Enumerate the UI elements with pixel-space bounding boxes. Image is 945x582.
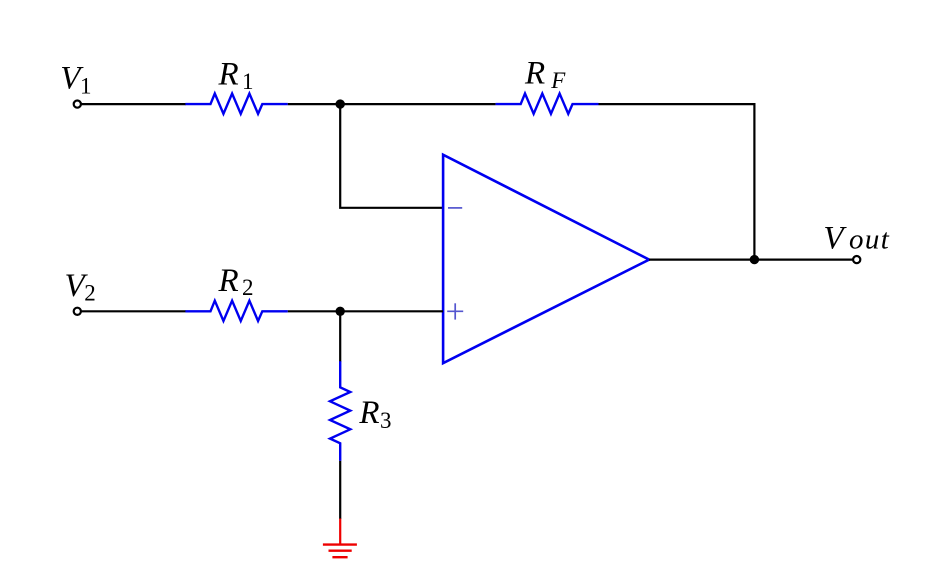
- wire op-amp output to Vout terminal: [649, 259, 853, 261]
- svg-text:2: 2: [84, 280, 96, 305]
- ground: [323, 519, 357, 558]
- label V1: [60, 61, 91, 99]
- label RF: [524, 55, 566, 93]
- label R2: [218, 263, 254, 300]
- svg-text:R: R: [358, 395, 379, 431]
- label R3: [358, 395, 391, 433]
- wire V2 terminal to R2: [81, 310, 186, 312]
- wire RF to feedback corner: [599, 103, 756, 105]
- node A junction dot: [336, 99, 345, 108]
- node B junction dot: [336, 307, 345, 316]
- terminal V1: [74, 101, 81, 108]
- svg-text:1: 1: [242, 69, 254, 94]
- label V2: [65, 268, 96, 305]
- svg-text:F: F: [550, 68, 566, 93]
- wire V1 terminal to R1: [81, 103, 186, 105]
- wire node B down to R3: [339, 311, 341, 362]
- wire node A down to inverting input: [340, 103, 443, 208]
- wire R2 to non-inverting input (through node B): [288, 310, 443, 312]
- op-amp plus pin symbol: [447, 303, 463, 319]
- svg-text:2: 2: [242, 275, 254, 300]
- resistor R2: [185, 301, 287, 321]
- svg-text:R: R: [218, 56, 239, 92]
- wire R3 to ground: [339, 461, 341, 519]
- op-amp minus pin symbol: [448, 207, 462, 209]
- svg-text:out: out: [849, 223, 890, 255]
- terminal Vout: [853, 256, 860, 263]
- node output junction dot: [750, 255, 759, 264]
- resistor RF: [496, 94, 599, 114]
- svg-text:3: 3: [380, 408, 392, 433]
- svg-text:R: R: [218, 263, 239, 299]
- resistor R1: [185, 94, 287, 114]
- wire feedback vertical down to output node: [753, 103, 755, 260]
- svg-text:R: R: [524, 55, 545, 91]
- resistor R3: [330, 361, 350, 461]
- op-amp U1 triangle: [443, 155, 649, 363]
- wire R1 to RF (top rail through node A): [288, 103, 496, 105]
- svg-text:1: 1: [80, 73, 92, 98]
- label R1: [218, 56, 254, 94]
- label Vout: [823, 220, 890, 256]
- terminal V2: [74, 308, 81, 315]
